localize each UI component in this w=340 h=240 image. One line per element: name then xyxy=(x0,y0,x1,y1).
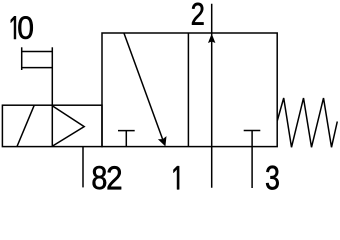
manual override Z10 left bar xyxy=(21,47,23,70)
glyph 1 of label 10 xyxy=(11,16,16,39)
pilot amplifier triangle xyxy=(52,106,84,146)
port 2 flow line xyxy=(211,4,213,188)
left cell blocked port T cap xyxy=(118,130,135,132)
label 1 supply port xyxy=(174,166,180,189)
manual override bottom rail xyxy=(22,67,53,69)
left cell blocked port T stem xyxy=(125,131,127,147)
glyph 8 of label 82 xyxy=(93,166,107,189)
solenoid divider xyxy=(51,105,53,146)
label 3 exhaust port xyxy=(266,166,279,190)
solenoid coil diagonal xyxy=(17,105,34,146)
return spring xyxy=(277,98,337,147)
valve position divider xyxy=(187,33,189,147)
right cell blocked port T stem / port 3 line xyxy=(251,131,253,189)
left cell flow arrow shaft xyxy=(124,33,163,140)
glyph 2 of label 82 xyxy=(108,166,122,189)
wire override to pilot divider xyxy=(51,47,53,105)
manual override top rail xyxy=(22,51,53,53)
pilot exhaust 82 line xyxy=(82,147,84,188)
right cell blocked port T cap xyxy=(244,130,261,132)
valve body rectangle xyxy=(102,33,277,147)
arrowhead up (port 2) xyxy=(208,34,215,43)
label 2 top port xyxy=(192,3,204,25)
arrowhead down (left cell) xyxy=(158,136,167,146)
solenoid box K1 xyxy=(2,105,102,146)
glyph 0 of label 10 xyxy=(18,16,32,39)
